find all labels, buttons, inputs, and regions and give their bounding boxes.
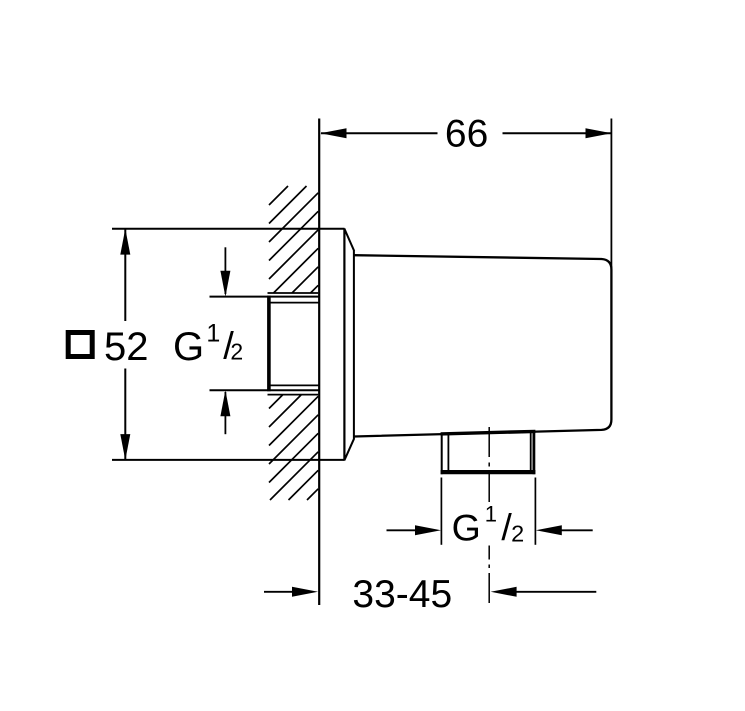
svg-text:G: G <box>173 325 204 369</box>
arrowhead 66 right <box>586 128 612 138</box>
outlet left outer edge <box>441 433 443 474</box>
arrowhead 33-45 right <box>491 587 517 597</box>
dim 66 right extension line <box>610 119 612 271</box>
svg-text:1: 1 <box>485 501 497 526</box>
flange bottom edge + 52 bottom extension <box>112 459 345 461</box>
wall surface line (also 66-left and 33-45-left extension) <box>318 119 320 606</box>
dim G1/2 middle lower arrow line <box>224 392 226 434</box>
arrowhead G1/2 middle down <box>220 271 230 297</box>
arrowhead 66 left <box>320 128 346 138</box>
dim 66 line right segment <box>503 132 611 134</box>
dim 52 vertical line upper segment <box>124 229 126 321</box>
flange top chamfer <box>345 229 355 251</box>
flange bottom chamfer <box>345 438 355 460</box>
outlet bottom end face (thick) <box>441 470 536 474</box>
flange top edge + 52 top extension <box>112 228 345 230</box>
outlet top shoulder (thick, along body bottom edge) <box>441 431 536 434</box>
outlet centerline upper segment (dash-dot) <box>488 427 490 504</box>
body outline (top, right, bottom) <box>354 255 612 436</box>
dim 33-45 left arrow line <box>264 591 294 593</box>
dim G1/2 bottom right arrow line <box>559 529 593 531</box>
arrowhead 33-45 left <box>292 587 318 597</box>
inlet thread inner top line <box>268 302 319 304</box>
svg-text:52: 52 <box>104 325 149 369</box>
inlet thread left end face (thick) <box>267 296 271 392</box>
svg-text:66: 66 <box>445 113 488 156</box>
arrowhead 52 top <box>120 229 130 255</box>
outlet right inner thread line <box>530 431 532 470</box>
svg-text:G: G <box>452 506 481 548</box>
inlet thread inner bottom line <box>268 384 319 386</box>
square symbol of dim 52 <box>68 333 92 357</box>
cone neck line <box>353 251 355 439</box>
inlet thread bottom edge + G1/2 extension <box>210 389 319 391</box>
svg-text:33-45: 33-45 <box>352 573 452 616</box>
wall hole bottom edge <box>268 394 319 396</box>
wall hatch lower band <box>269 395 318 500</box>
arrowhead 52 bottom <box>120 434 130 460</box>
dim G1/2 bottom right extension line <box>534 478 536 545</box>
svg-text:2: 2 <box>230 339 243 365</box>
outlet left inner thread line <box>447 433 449 470</box>
dim 66 line left segment <box>321 132 438 134</box>
wall hatch upper band <box>269 186 318 293</box>
svg-text:2: 2 <box>511 521 524 547</box>
outlet centerline lower segment (dash-dot) <box>488 546 490 606</box>
dim G1/2 bottom left extension line <box>440 478 442 545</box>
flange front face <box>343 228 345 460</box>
inlet thread top edge + G1/2 extension <box>210 296 319 298</box>
arrowhead G1/2 bottom right <box>536 525 562 535</box>
dim 52 vertical line lower segment <box>124 369 126 460</box>
dim G1/2 bottom left arrow line <box>387 529 419 531</box>
arrowhead G1/2 bottom left <box>415 525 441 535</box>
dim 33-45 right arrow line <box>514 591 596 593</box>
arrowhead G1/2 middle up <box>220 390 230 416</box>
svg-text:1: 1 <box>206 319 220 347</box>
dim G1/2 middle upper arrow line <box>224 247 226 294</box>
wall hole top edge <box>268 292 319 294</box>
outlet right outer edge (thick) <box>533 431 536 474</box>
